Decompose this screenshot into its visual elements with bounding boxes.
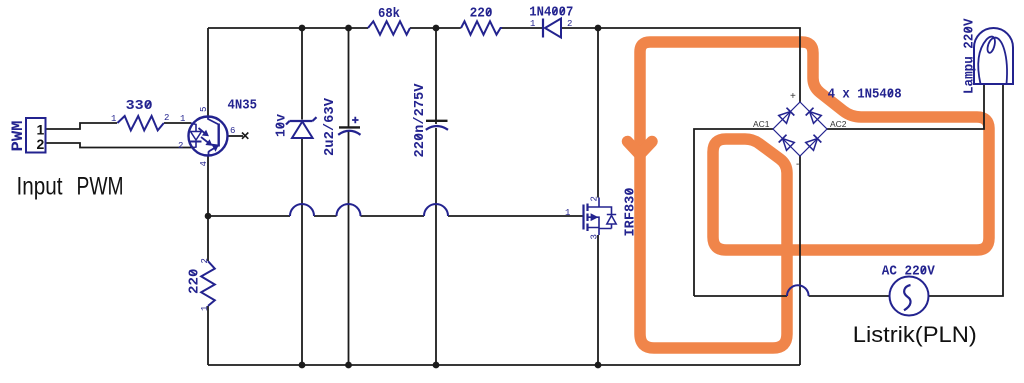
svg-text:220: 220 <box>187 269 203 295</box>
svg-text:4N35: 4N35 <box>228 98 258 114</box>
svg-text:+: + <box>790 91 796 102</box>
svg-text:3: 3 <box>590 234 600 239</box>
svg-text:Listrik(PLN): Listrik(PLN) <box>853 322 977 347</box>
svg-text:4: 4 <box>199 161 209 166</box>
svg-text:2: 2 <box>37 136 45 152</box>
svg-text:1: 1 <box>565 208 570 218</box>
svg-text:1: 1 <box>530 19 535 29</box>
svg-text:6: 6 <box>230 126 235 136</box>
svg-text:220: 220 <box>470 6 493 22</box>
svg-text:AC1: AC1 <box>753 119 770 129</box>
svg-text:220n/275V: 220n/275V <box>412 83 428 158</box>
svg-text:10v: 10v <box>274 113 290 137</box>
svg-text:2: 2 <box>178 141 183 151</box>
svg-text:1: 1 <box>200 306 210 311</box>
svg-text:PWM: PWM <box>9 121 27 152</box>
svg-text:Input: Input <box>17 173 63 201</box>
svg-text:Lampu 220V: Lampu 220V <box>961 18 977 94</box>
svg-text:2: 2 <box>200 258 210 263</box>
svg-text:68k: 68k <box>378 6 400 22</box>
svg-text:-: - <box>796 159 799 170</box>
svg-text:2: 2 <box>567 19 572 29</box>
svg-text:330: 330 <box>126 98 153 114</box>
svg-text:IRF830: IRF830 <box>623 188 639 237</box>
svg-text:5: 5 <box>199 107 209 112</box>
svg-text:2: 2 <box>164 113 169 123</box>
svg-text:2: 2 <box>590 196 600 201</box>
svg-text:2u2/63V: 2u2/63V <box>322 97 338 156</box>
svg-text:1: 1 <box>180 114 185 124</box>
svg-text:AC2: AC2 <box>830 119 847 129</box>
svg-text:AC 220V: AC 220V <box>882 264 936 280</box>
svg-text:1: 1 <box>111 114 116 124</box>
svg-text:PWM: PWM <box>77 173 124 201</box>
